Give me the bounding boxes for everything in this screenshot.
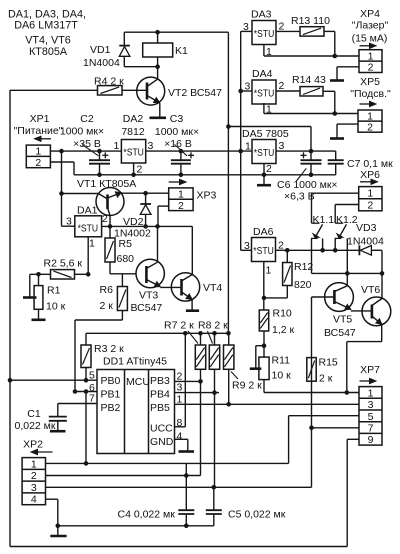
wire: switched output node: [312, 272, 383, 274]
svg-text:VT2 ВС547: VT2 ВС547: [168, 87, 222, 99]
wire: R8 bottom long lead: [214, 369, 216, 487]
svg-text:1,2 к: 1,2 к: [272, 324, 295, 336]
resistor R12: [286, 250, 288, 262]
wire: raw+ riser to VT1 collector and DA1 input: [61, 151, 63, 226]
ground for R1: [38, 309, 40, 320]
wire+ground: XP4 pin 2: [337, 66, 359, 68]
wire: R10 to R11: [263, 331, 265, 357]
wire: bottom capacitor rail: [58, 525, 214, 527]
leader R8: [208, 331, 213, 344]
svg-text:3: 3: [243, 21, 249, 33]
wire: XP6 pin 2 to K1.2: [335, 204, 359, 206]
svg-text:1: 1: [245, 141, 251, 153]
svg-text:*STU: *STU: [253, 246, 273, 257]
svg-text:VT4, VT6: VT4, VT6: [25, 35, 71, 47]
resistor R11: [259, 357, 269, 380]
wire: DD1 pin 3 PB4: [175, 392, 220, 394]
wire: left border net (R4 - PB0 - bottom - XP7 pin 9): [9, 90, 11, 547]
node: C2 tap: [97, 149, 102, 154]
svg-text:1: 1: [367, 188, 373, 200]
node: 12V line tap: [238, 149, 243, 154]
svg-text:DA2: DA2: [123, 113, 144, 125]
wire: XP7 pin 7 line: [312, 427, 360, 429]
wire: DA4 pin 1 (adj): [263, 103, 265, 114]
wire: XP3 pin 2 to collector node: [158, 205, 169, 207]
svg-text:ВС547: ВС547: [324, 327, 356, 339]
node: DA4 input tap: [238, 89, 243, 94]
svg-text:R14 43: R14 43: [292, 74, 326, 86]
node: R8 tap: [212, 331, 217, 336]
node: PB0 tap on left border: [8, 378, 13, 383]
svg-text:0,022 мк: 0,022 мк: [14, 420, 55, 432]
svg-text:VT4: VT4: [203, 282, 222, 294]
svg-text:5: 5: [368, 411, 374, 423]
svg-text:1N4004: 1N4004: [347, 236, 384, 248]
svg-text:2: 2: [102, 213, 108, 225]
node: PB1 riser tap: [84, 461, 89, 466]
svg-text:DA6: DA6: [253, 226, 274, 238]
wire: DA4 output to R14: [276, 90, 300, 92]
svg-text:C6 1000 мк×: C6 1000 мк×: [277, 179, 338, 191]
wire: R4 left lead: [10, 89, 98, 91]
node: K1.2 contact tap: [333, 248, 338, 253]
svg-text:"Лазер": "Лазер": [352, 20, 389, 32]
svg-text:R1: R1: [47, 285, 61, 297]
svg-text:3: 3: [31, 482, 37, 494]
wire: DD1 pin 5 PB0 from border: [10, 379, 97, 381]
svg-text:PB0: PB0: [101, 375, 121, 387]
wire: VT4 collector to node: [158, 225, 193, 227]
wire: DA2 ground pin 2: [133, 163, 135, 175]
svg-text:DA4: DA4: [252, 68, 273, 80]
wire: DA4 input: [241, 90, 252, 92]
wire: VT1 emitter to XP3: [121, 192, 168, 194]
svg-text:7: 7: [89, 393, 95, 405]
svg-text:1N4004: 1N4004: [83, 57, 120, 69]
svg-text:K1: K1: [175, 45, 188, 57]
wire: R13 to XP4 pin 1: [324, 30, 335, 32]
node: VT1 base tap: [108, 224, 113, 229]
svg-text:R9 2 к: R9 2 к: [232, 380, 262, 392]
svg-text:1: 1: [368, 387, 374, 399]
resistor R9: [228, 333, 230, 345]
ground for R2: [29, 274, 31, 297]
svg-text:VT6: VT6: [361, 284, 380, 296]
node: C4 tap: [184, 473, 189, 478]
svg-text:820: 820: [294, 279, 312, 291]
svg-text:3: 3: [279, 140, 285, 152]
wire: jog between wire A and wire C: [185, 463, 187, 475]
svg-text:3: 3: [66, 216, 72, 228]
wire: DA6 input pin 3: [241, 249, 252, 251]
svg-text:1: 1: [114, 140, 120, 152]
wire: VD3 to VT6 collector node: [371, 249, 382, 251]
node: riser tap on PB1: [84, 389, 89, 394]
svg-text:1: 1: [35, 146, 41, 158]
wire: VT6 emitter to XP7 pin 1 wire: [381, 325, 383, 342]
wire: R9 bottom lead: [228, 369, 230, 404]
svg-text:DA1: DA1: [77, 205, 98, 217]
svg-text:*STU: *STU: [254, 88, 274, 99]
resistor R6: [117, 287, 127, 311]
svg-text:XP2: XP2: [23, 439, 43, 451]
svg-text:R7 2 к: R7 2 к: [164, 320, 194, 332]
wire: XP7 pin 5 line: [289, 415, 359, 417]
svg-text:R15: R15: [319, 357, 338, 369]
wire: DA5 output 5V: [276, 150, 311, 152]
svg-text:XP1: XP1: [30, 113, 50, 125]
svg-text:ВС547: ВС547: [131, 302, 163, 314]
wire: DA3 output to R13: [276, 30, 300, 32]
resistor R3: [85, 333, 87, 345]
wire: R4 to VT2 base: [122, 89, 147, 91]
wire: VT5 base line: [312, 296, 335, 298]
svg-text:3: 3: [177, 382, 183, 394]
wire: R11 bottom to XP7 pin 1: [263, 380, 265, 393]
node: 5V node: [309, 149, 314, 154]
wire: R6 bottom to DD1 PB1: [121, 311, 123, 321]
svg-text:K1.2: K1.2: [336, 214, 358, 226]
svg-text:R2 5,6 к: R2 5,6 к: [44, 258, 83, 270]
svg-text:*STU: *STU: [123, 147, 143, 158]
svg-text:"Питание": "Питание": [14, 125, 63, 137]
wire: DA1 output pin 2 node: [102, 225, 158, 227]
wire: DA3 pin 1 (adj): [263, 45, 265, 57]
node: K1.1 contact tap: [320, 248, 325, 253]
wire: VT5 emitter to VT6 base: [351, 310, 372, 312]
svg-text:VD1: VD1: [90, 44, 111, 56]
svg-text:XP6: XP6: [360, 169, 380, 181]
node: R1 tap: [36, 272, 41, 277]
wire: XP1 pin 2 to ground rail: [50, 161, 74, 163]
ground for XP2 pin 4: [57, 526, 59, 536]
wire: DA6 adj pin 1: [263, 262, 265, 311]
wire: R12 bottom jog: [286, 286, 288, 298]
svg-text:3: 3: [148, 140, 154, 152]
wire: 12V output line to DA5: [146, 150, 252, 152]
wire: R5 to VT3 base: [109, 262, 111, 274]
wire: R14 to XP5 pin 1: [323, 90, 335, 92]
svg-text:1: 1: [31, 458, 37, 470]
svg-text:DA3: DA3: [251, 9, 272, 21]
svg-text:UCC: UCC: [150, 423, 173, 435]
node: logic rail corner: [226, 124, 231, 129]
svg-text:1: 1: [89, 238, 95, 250]
node: VT3/VT4 collector junction: [155, 224, 160, 229]
wire: XP2 pin 4 to ground: [46, 498, 58, 500]
svg-text:PB3: PB3: [150, 375, 170, 387]
svg-text:2 к: 2 к: [319, 373, 333, 385]
connector XP3: [169, 181, 184, 183]
wire: +5V top rail to relay: [124, 31, 228, 33]
wire: R15 long bottom lead: [311, 381, 313, 487]
svg-text:2 к: 2 к: [100, 300, 114, 312]
svg-text:R3 2 к: R3 2 к: [94, 343, 124, 355]
svg-text:PB2: PB2: [101, 402, 121, 414]
node: DA5 ground tap: [262, 173, 267, 178]
wire: logic 5V vertical rail: [227, 32, 229, 333]
node: DA3 adj junction: [333, 54, 338, 59]
svg-text:C1: C1: [27, 408, 41, 420]
wire: riser PB1 to XP2 pin 1 wire: [85, 392, 87, 464]
svg-text:C4 0,022 мк: C4 0,022 мк: [118, 509, 176, 521]
wire: XP2 pin 1 line (wire A): [46, 462, 289, 464]
svg-text:2: 2: [367, 122, 373, 134]
resistor R14: [300, 87, 323, 96]
svg-text:2: 2: [368, 62, 374, 74]
node: UCC tap: [183, 331, 188, 336]
node: C4 bottom rail tap: [56, 524, 61, 529]
node: R10/R11 junction: [262, 343, 267, 348]
wire: 5V distribution wire: [86, 332, 228, 334]
svg-text:2: 2: [367, 200, 373, 212]
svg-text:DA6 LM317T: DA6 LM317T: [14, 19, 78, 31]
wire: 5V jog to logic rail: [228, 126, 311, 128]
leader R7: [188, 331, 198, 344]
svg-text:VT3: VT3: [139, 290, 158, 302]
svg-text:1000 мк×: 1000 мк×: [155, 126, 199, 138]
wire: R7 bottom long lead: [200, 369, 202, 475]
svg-text:2: 2: [266, 163, 272, 175]
svg-text:C3: C3: [170, 113, 184, 125]
svg-text:PB4: PB4: [150, 389, 170, 401]
node: DA6 adj junction: [262, 296, 267, 301]
svg-text:C5 0,022 мк: C5 0,022 мк: [228, 509, 286, 521]
svg-text:XP7: XP7: [360, 364, 380, 376]
svg-text:R12: R12: [294, 261, 313, 273]
node: C2 ground tap: [97, 173, 102, 178]
svg-text:XP4: XP4: [360, 8, 380, 20]
svg-text:VT5: VT5: [333, 314, 352, 326]
resistor R8: [214, 333, 216, 345]
svg-text:XP5: XP5: [360, 76, 380, 88]
svg-text:DA5 7805: DA5 7805: [242, 128, 289, 140]
node: DA4 adj junction: [333, 111, 338, 116]
svg-text:MCU: MCU: [126, 376, 150, 388]
resistor R15: [311, 358, 313, 382]
ground symbol of rail: [263, 175, 265, 185]
svg-text:2: 2: [278, 239, 284, 251]
svg-text:1: 1: [368, 50, 374, 62]
wire: XP2 pin 2 line (wire C) to R7: [46, 475, 201, 477]
node: VT2 collector / K1 / VD1: [155, 64, 160, 69]
svg-text:"Подсв.": "Подсв.": [350, 88, 391, 100]
node: VT6 collector tap: [380, 271, 385, 276]
relay coil K1: [157, 32, 159, 43]
ground rail wire: [74, 174, 336, 176]
wire: XP2 pin 3 line (wire B) to R15 lead: [46, 486, 312, 488]
wire: XP1 pin 1 to DA2 input: [50, 150, 121, 152]
resistor R10: [259, 310, 268, 331]
svg-text:R5: R5: [119, 238, 133, 250]
svg-text:2: 2: [35, 157, 41, 169]
svg-text:10 к: 10 к: [46, 301, 66, 313]
wire: VT1 collector: [62, 193, 99, 195]
resistor R1: [38, 274, 40, 285]
node: R12 tap: [285, 248, 290, 253]
svg-text:R10: R10: [273, 308, 292, 320]
node: rail end tap: [226, 331, 231, 336]
svg-text:R4 2 к: R4 2 к: [94, 76, 124, 88]
transistor VT2: [137, 77, 165, 105]
svg-text:2: 2: [279, 80, 285, 92]
leader R9: [231, 372, 238, 380]
svg-text:R13 110: R13 110: [291, 15, 330, 27]
svg-text:R6: R6: [100, 284, 114, 296]
svg-text:7812: 7812: [121, 126, 145, 138]
svg-text:R8 2 к: R8 2 к: [198, 320, 228, 332]
svg-text:×6,3 В: ×6,3 В: [284, 191, 315, 203]
svg-text:4: 4: [31, 494, 37, 506]
node: R7 tap: [198, 331, 203, 336]
wire: DD1 pin 2 PB3: [175, 380, 201, 382]
node: raw+ tap: [59, 149, 64, 154]
node: VD2 top tap: [143, 191, 148, 196]
svg-text:GND: GND: [150, 436, 174, 448]
diode VD1: [123, 32, 125, 45]
wire: VD1 bottom to VT2 collector node: [124, 66, 157, 68]
svg-text:DD1 ATtiny45: DD1 ATtiny45: [103, 356, 167, 368]
node: XP7 pin 7 tap: [309, 426, 314, 431]
wire: VT3 emitter to VT4 base: [160, 286, 181, 288]
wire: DA1 adj pin 1 down to divider: [87, 237, 89, 274]
wire: VT1 base from DA1 output: [109, 215, 111, 226]
node: VT5 collector tap: [345, 271, 350, 276]
node: VT1 collector tap: [59, 191, 64, 196]
wire: R3 to DD1 PB0: [85, 368, 87, 381]
svg-text:7: 7: [368, 422, 374, 434]
ground for VT4 emitter: [191, 299, 193, 310]
svg-text:1: 1: [178, 188, 184, 200]
svg-text:C2: C2: [80, 113, 94, 125]
wire: XP6 pin 1 to K1.1: [312, 192, 359, 194]
wire: DA6 output to relay contacts and VD3: [276, 249, 360, 251]
svg-text:3: 3: [368, 399, 374, 411]
ground jog at R10/R11 junction: [256, 345, 264, 347]
svg-text:*STU: *STU: [254, 29, 274, 40]
node: VT6 emitter tap: [345, 390, 350, 395]
svg-text:2: 2: [31, 470, 37, 482]
svg-text:680: 680: [117, 253, 135, 265]
wire: DD1 pin 1 PB5 to XP7 pin 3: [175, 403, 360, 405]
resistor R7: [200, 333, 202, 345]
wire: R6 tap to VT3 base line: [121, 274, 123, 287]
wire: DD1 pin 6 PB1: [75, 391, 97, 393]
svg-text:1: 1: [266, 104, 272, 116]
ground for VT2 emitter: [159, 103, 161, 118]
svg-text:XP3: XP3: [197, 190, 217, 202]
svg-text:2: 2: [137, 164, 143, 176]
svg-text:VD3: VD3: [356, 222, 377, 234]
node: DA1 adj junction: [86, 272, 91, 277]
svg-text:PB1: PB1: [101, 389, 121, 401]
svg-text:КТ805А: КТ805А: [29, 46, 68, 58]
svg-text:10 к: 10 к: [272, 370, 292, 382]
svg-text:K1.1: K1.1: [313, 214, 335, 226]
svg-text:*STU: *STU: [254, 148, 274, 159]
svg-text:*STU: *STU: [78, 223, 99, 234]
resistor R4: [98, 86, 123, 95]
svg-text:1000 мк×: 1000 мк×: [60, 126, 104, 138]
svg-text:VD2: VD2: [123, 216, 144, 228]
node: C3 tap: [179, 149, 184, 154]
svg-text:9: 9: [368, 434, 374, 446]
svg-text:1: 1: [266, 46, 272, 58]
wire: DD1 pin 7 PB2 to C1: [58, 403, 97, 405]
resistor R13: [300, 27, 324, 36]
node: C5 tap: [212, 485, 217, 490]
node: C4 bottom: [184, 524, 189, 529]
svg-text:R11: R11: [272, 355, 291, 367]
node: relay top: [155, 30, 160, 35]
svg-text:1: 1: [266, 265, 272, 277]
wire+ground: DD1 pin 4 GND: [175, 438, 188, 440]
svg-text:2: 2: [178, 200, 184, 212]
wire: +12V rail riser to DA3-DA6 regulators: [240, 31, 242, 250]
node: VD2 bottom tap: [143, 224, 148, 229]
svg-text:4: 4: [177, 431, 183, 443]
svg-text:PB5: PB5: [150, 402, 170, 414]
wire+ground: XP5 pin 2: [337, 123, 358, 125]
wire: DA5 ground pin: [263, 164, 265, 175]
resistor R5: [109, 226, 111, 238]
wire: DD1 pin 8 UCC from 5V: [175, 426, 186, 428]
